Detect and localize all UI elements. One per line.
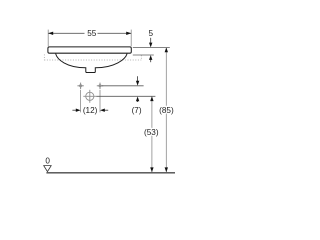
dimension (53) top arrow (up)	[150, 96, 153, 101]
washbasin rim outline	[48, 47, 131, 53]
dimension (12) left arrow and tail	[72, 109, 76, 111]
dimension 5 lower extension line (counter level)	[133, 54, 154, 56]
dimension (7) upper arrow (down)	[137, 76, 139, 82]
dimension 55 arrow right	[126, 32, 131, 35]
dimension (12) extension line right	[99, 90, 101, 113]
dimension (12) right arrow and tail	[104, 109, 108, 111]
dimension (7) lower level line (drain level)	[96, 95, 155, 97]
floor line	[46, 172, 175, 174]
dimension (85) line	[165, 48, 167, 173]
dimension 55 line left segment	[48, 32, 84, 34]
dimension 55 extension line right	[130, 30, 132, 47]
dimension (53) line	[151, 96, 153, 172]
countertop hidden edge bottom (dashed)	[44, 59, 141, 61]
fixing point cross left	[77, 83, 83, 89]
svg-text:(12): (12)	[83, 106, 98, 115]
countertop hidden edge right vertical (dashed)	[140, 55, 142, 60]
washbasin bowl and drain outlet outline	[56, 54, 128, 73]
dimension 5 upper arrow (down)	[150, 38, 152, 44]
dimension 55 arrow left	[48, 32, 53, 35]
svg-text:(53): (53)	[144, 128, 159, 137]
fixing point cross right	[97, 83, 103, 89]
dimension (53) bottom arrow (down)	[150, 167, 153, 172]
datum zero triangle	[44, 166, 52, 172]
dimension (12) extension line left	[80, 90, 82, 113]
dimension 5 upper extension line (rim top level)	[133, 47, 170, 49]
dimension (85) bottom arrow (down)	[165, 167, 168, 172]
svg-text:5: 5	[149, 29, 154, 38]
dimension 55 line right segment	[98, 32, 132, 34]
dimension 5 lower arrow (up)	[150, 59, 152, 63]
dimension (7) upper level line (fixing holes level)	[102, 85, 144, 87]
svg-text:55: 55	[87, 29, 97, 38]
svg-text:0: 0	[45, 157, 50, 166]
svg-text:(85): (85)	[159, 106, 174, 115]
dimension (85) top arrow (up)	[165, 48, 168, 53]
svg-text:(7): (7)	[132, 106, 142, 115]
drain centre symbol (circle with crosshair)	[83, 90, 96, 103]
countertop hidden edge left vertical (dashed)	[43, 54, 45, 60]
dimension (7) lower arrow (up)	[137, 100, 139, 102]
dimension 55 extension line left	[47, 30, 49, 47]
